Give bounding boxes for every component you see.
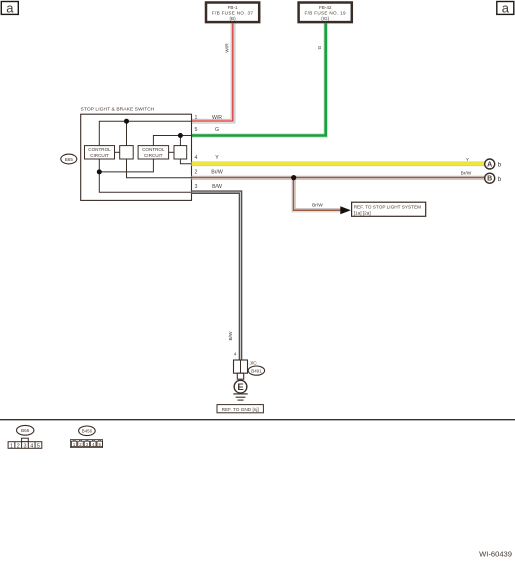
wire Br/W from pin 2 to node B	[192, 176, 485, 180]
ground stub below J/C	[237, 373, 243, 379]
junction dot (pin5 bus / S2)	[178, 133, 183, 138]
svg-text:G: G	[317, 45, 323, 49]
svg-text:a: a	[6, 0, 14, 15]
svg-text:b: b	[498, 162, 502, 169]
svg-text:FB-1: FB-1	[228, 5, 238, 10]
svg-text:B/W: B/W	[212, 184, 222, 190]
svg-text:B456: B456	[82, 429, 93, 434]
svg-text:5: 5	[37, 443, 40, 449]
reference box REF. TO GND	[217, 405, 263, 413]
svg-text:4: 4	[234, 352, 237, 357]
svg-text:FB-42: FB-42	[319, 5, 332, 10]
svg-text:E: E	[237, 382, 243, 393]
svg-text:REF. TO STOP LIGHT SYSTEM: REF. TO STOP LIGHT SYSTEM	[354, 205, 421, 210]
svg-text:4: 4	[195, 155, 198, 161]
svg-text:b: b	[498, 176, 502, 183]
svg-text:B65: B65	[21, 428, 30, 433]
internal wire: pin 1 bus to U1 top	[99, 121, 191, 145]
connector oval B491	[248, 366, 264, 375]
svg-text:B: B	[487, 176, 492, 183]
svg-text:Y: Y	[215, 155, 219, 161]
svg-text:5: 5	[195, 127, 198, 133]
svg-text:CONTROL: CONTROL	[142, 147, 165, 152]
internal wire: ground bus to U2 bottom	[99, 159, 153, 172]
svg-text:CONTROL: CONTROL	[88, 147, 111, 152]
svg-text:1: 1	[10, 443, 13, 449]
internal wire: S2 top drop	[179, 136, 181, 146]
internal wire: S1 top drop	[126, 121, 128, 145]
separator line	[0, 419, 515, 421]
junction dot on Br/W wire	[291, 175, 296, 180]
internal wire: U2 to S2 link	[169, 151, 174, 153]
ground terminal E	[234, 380, 247, 393]
svg-text:Br/W: Br/W	[312, 202, 323, 208]
fuse box FB-1	[206, 3, 259, 23]
svg-text:W/R: W/R	[224, 43, 230, 53]
svg-text:A: A	[487, 162, 492, 169]
svg-text:Br/W: Br/W	[211, 170, 223, 176]
svg-text:B65: B65	[65, 157, 74, 162]
svg-text:B/W: B/W	[228, 331, 234, 341]
svg-text:(B): (B)	[230, 16, 237, 21]
internal wire: S2 bottom to pin 4	[180, 159, 191, 164]
switch contact S2	[174, 146, 187, 159]
svg-text:REF. TO GND [nj]: REF. TO GND [nj]	[222, 407, 259, 412]
wire Y from pin 4 to node A	[192, 162, 485, 167]
internal wire: U1 bottom to ground bus pin 3	[99, 159, 191, 192]
connector view B65 (bottom legend)	[8, 425, 42, 449]
svg-text:[1a] [2a]: [1a] [2a]	[354, 211, 371, 216]
node B circle	[485, 173, 495, 183]
wire B/W from pin 3 down to J/C	[192, 192, 241, 360]
svg-text:G: G	[215, 127, 219, 133]
svg-text:F/B FUSE NO. 37: F/B FUSE NO. 37	[212, 11, 254, 16]
branch wire Br/W to stop light system	[294, 178, 341, 211]
connector oval B65 (left of switch)	[61, 154, 77, 164]
node A circle	[485, 159, 495, 169]
svg-text:STOP LIGHT & BRAKE SWITCH: STOP LIGHT & BRAKE SWITCH	[81, 106, 155, 112]
wire G from switch pin 5 to FB-42	[192, 24, 326, 136]
svg-text:Br/W: Br/W	[461, 171, 472, 177]
connector view B456 (bottom legend)	[70, 426, 102, 448]
stoplight & brake switch outer box	[81, 114, 192, 200]
svg-text:CIRCUIT: CIRCUIT	[144, 153, 163, 158]
svg-text:CIRCUIT: CIRCUIT	[90, 153, 109, 158]
svg-text:a: a	[502, 0, 510, 15]
corner marker a (top-right)	[497, 0, 514, 15]
svg-text:(IG): (IG)	[321, 16, 329, 21]
wire W/R from switch pin 1 to FB-1	[192, 24, 234, 122]
internal wire: U1 to S1 link	[115, 151, 120, 153]
corner marker a (top-left)	[1, 0, 18, 15]
svg-text:3: 3	[24, 443, 27, 449]
ground symbol	[233, 394, 247, 400]
internal wire: pin 5 bus to U2 top	[153, 136, 191, 146]
arrow head to reference box	[340, 206, 351, 214]
svg-text:4: 4	[30, 443, 33, 449]
switch contact S1	[120, 146, 134, 159]
internal wire: S1 bottom to pin 2	[127, 159, 192, 178]
junction connector J/C	[234, 360, 248, 373]
svg-text:WI-60439: WI-60439	[479, 549, 512, 558]
svg-text:F/B FUSE NO. 19: F/B FUSE NO. 19	[304, 11, 346, 16]
control circuit U2	[138, 146, 169, 159]
junction dot (pin1 bus / S1)	[124, 119, 129, 124]
fuse box FB-42	[299, 3, 352, 23]
svg-text:1: 1	[195, 115, 198, 121]
svg-text:2: 2	[17, 443, 20, 449]
reference box REF. TO STOP LIGHT SYSTEM	[352, 202, 426, 216]
svg-text:W/R: W/R	[212, 115, 222, 121]
control circuit U1	[85, 146, 115, 159]
svg-text:B491: B491	[251, 368, 262, 373]
svg-text:2: 2	[195, 170, 198, 176]
svg-text:3: 3	[195, 184, 198, 190]
junction dot (ground bus)	[97, 169, 102, 174]
